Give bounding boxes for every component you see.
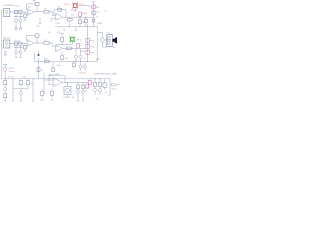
wire U1A fb left (26, 4, 28, 10)
resistor R8 bias (24, 44, 27, 51)
node N5 (79, 25, 82, 28)
wire low rail (35, 61, 98, 63)
svg-text:VB: VB (63, 29, 66, 31)
svg-text:+: + (18, 51, 19, 53)
wire U2A fb top (27, 34, 36, 36)
node Nfb (65, 16, 68, 19)
resistor R12 series (66, 47, 71, 50)
capacitor C6 (92, 19, 95, 22)
node tieB2 (19, 46, 22, 49)
svg-text:R2: R2 (28, 7, 31, 9)
resistor R6 shunt (78, 20, 81, 24)
ground G3 (4, 52, 7, 56)
wire chain top (93, 2, 95, 27)
capacitor C14 electrolytic (79, 62, 82, 71)
capacitor C25 (61, 56, 64, 60)
ground tick x40 (39, 23, 41, 25)
ground bar x5 (4, 100, 7, 102)
wire C5 drop (69, 21, 71, 27)
svg-text:J4: J4 (105, 92, 108, 94)
potentiometer RV6 (88, 81, 92, 85)
wire right vert (96, 27, 98, 62)
wire U3 out (62, 81, 88, 83)
ground G1 (15, 27, 17, 30)
svg-text:10: 10 (85, 90, 88, 92)
svg-text:VOL: VOL (91, 47, 96, 49)
wire drop x80 low (80, 48, 82, 55)
svg-text:C1 C2: C1 C2 (15, 6, 22, 8)
wire C7 lead (15, 45, 17, 50)
capacitor C13 (72, 62, 75, 70)
node N18 (99, 77, 102, 80)
wire U2B fb chain top (61, 34, 63, 38)
wire c17 (20, 89, 22, 101)
node tieB1 (15, 46, 18, 49)
power input symbol (3, 65, 7, 79)
wire diamond to box (104, 39, 107, 41)
wire U1B fb top (54, 9, 66, 11)
wire in2 stub (50, 19, 52, 22)
wire U2B out (63, 47, 86, 49)
wire C1 lead (15, 14, 17, 19)
node N11 (4, 77, 7, 80)
output flag (112, 84, 117, 86)
power rail tick (92, 1, 96, 3)
capacitor C7 (14, 42, 17, 45)
wire R6 down (79, 24, 81, 27)
capacitor C3 electrolytic (14, 19, 17, 22)
connector J2 audio in B (4, 40, 10, 48)
svg-text:100n: 100n (40, 99, 44, 101)
op-amp U1A (27, 9, 34, 16)
svg-text:100n: 100n (57, 65, 61, 67)
wire tie rail A (14, 16, 24, 18)
node chain bot (86, 60, 89, 63)
svg-text:OUT: OUT (112, 88, 117, 90)
ground tick x76 (75, 30, 77, 32)
wire U1B fb right (65, 10, 67, 18)
wire C12 down (80, 58, 82, 61)
node chain top (86, 25, 89, 28)
capacitor C2 (19, 10, 22, 13)
lamp DS2 green (70, 37, 75, 42)
node N7 (71, 47, 74, 50)
connector J3 speaker out (107, 35, 112, 47)
wire C9 down (15, 54, 17, 58)
svg-text:GUITAR IN: GUITAR IN (3, 4, 14, 7)
svg-text:LM386: LM386 (54, 74, 61, 76)
op-amp U3 power amp (53, 78, 62, 87)
capacitor C24 (103, 79, 106, 90)
wire drop x80 (79, 17, 81, 20)
svg-text:50k: 50k (96, 7, 99, 9)
wire drop x53 (52, 62, 54, 69)
wire R3 to U1B (49, 12, 56, 16)
wire Q1 bottom stub (67, 95, 69, 98)
svg-text:47k: 47k (48, 32, 51, 34)
svg-text:BOOST: BOOST (64, 97, 72, 99)
ground GB1 (15, 57, 17, 59)
svg-text:500k: 500k (83, 13, 88, 15)
wire C3 down (15, 22, 17, 27)
resistor R16 (4, 91, 7, 101)
svg-text:+: + (18, 19, 19, 21)
node N15 (66, 81, 69, 84)
ground bar x78 (77, 100, 79, 102)
wire diamond branch (97, 33, 102, 37)
wire C11 down (75, 58, 77, 61)
svg-text:4k7: 4k7 (31, 83, 35, 85)
capacitor C21 electrolytic (82, 90, 85, 93)
svg-text:9V DC: 9V DC (9, 68, 15, 70)
wire C23 down (99, 92, 101, 96)
wire volume chain (87, 27, 89, 62)
svg-text:IC1B: IC1B (56, 23, 61, 25)
svg-text:B+ 9V: B+ 9V (8, 77, 14, 79)
wire lamp to RV2 (77, 6, 92, 7)
op-amp U1B (56, 13, 63, 20)
wire tie rail B (14, 47, 24, 49)
node N6 (36, 42, 39, 45)
capacitor C12 electrolytic (79, 55, 82, 58)
capacitor C18 (41, 89, 44, 98)
resistor R1 bias (24, 12, 27, 20)
ground bar x13 (12, 100, 15, 102)
wire drop x85.8 (85, 17, 87, 19)
wire left bus (1, 9, 3, 79)
resistor R11 feedback (61, 37, 64, 41)
resistor R22 (99, 79, 102, 89)
capacitor C8 (19, 42, 22, 45)
wire drop x62 (61, 52, 63, 56)
wire stub below rail (75, 27, 77, 31)
node tieA1 (15, 15, 18, 18)
wire stub above rail (87, 24, 89, 27)
svg-text:DRIVE: DRIVE (71, 10, 78, 12)
node N1b (49, 10, 52, 13)
svg-text:VREF: VREF (97, 23, 103, 25)
transistor Q1 (64, 87, 71, 95)
wire mid rail (55, 26, 97, 28)
node N6b (49, 42, 52, 45)
potentiometer RV1 (79, 12, 83, 16)
potentiometer RV4b (86, 44, 91, 48)
capacitor C27 (84, 19, 87, 23)
wire RV6 top (89, 79, 91, 81)
resistor R21 (94, 79, 97, 89)
svg-text:AUX IN: AUX IN (3, 37, 11, 40)
potentiometer RV5 (86, 84, 90, 88)
wire C8 lead (20, 45, 22, 50)
wire R11 down (61, 41, 63, 44)
capacitor C22 electrolytic (94, 89, 97, 92)
node tieA2 (19, 15, 22, 18)
resistor R9 feedback (35, 34, 39, 37)
node lamp (61, 43, 64, 46)
wire U1B fb left (53, 10, 55, 15)
node N2 (79, 16, 82, 19)
wire C10 down (20, 54, 22, 58)
wire Q1 top (67, 82, 69, 86)
wire x33 down (32, 79, 34, 101)
node N16 (77, 81, 80, 84)
resistor R7 (92, 11, 95, 15)
diode D2 lens (101, 36, 105, 44)
capacitor C1 (14, 10, 17, 13)
op-amp U2B (56, 45, 63, 52)
wire feedback loop U3 (49, 76, 65, 85)
svg-text:2.1mm: 2.1mm (9, 71, 15, 73)
svg-text:SW1: SW1 (96, 59, 101, 61)
capacitor C9 electrolytic (15, 51, 18, 54)
capacitor C23 electrolytic (99, 89, 102, 92)
svg-text:100k: 100k (80, 51, 85, 53)
svg-text:+9: +9 (104, 11, 107, 13)
potentiometer RV3 (77, 44, 81, 48)
power tick stage1 (33, 1, 35, 3)
capacitor C15 electrolytic (83, 62, 86, 71)
node C27 (84, 16, 87, 19)
resistor R2 feedback (35, 2, 39, 5)
speaker icon (113, 37, 117, 44)
wire U3 in2 (49, 84, 53, 86)
lamp DS1 red (73, 3, 78, 8)
capacitor C20 electrolytic (77, 90, 80, 93)
resistor R20 (82, 82, 85, 90)
node N4 (68, 25, 71, 28)
resistor R17 (20, 79, 23, 87)
node N8 (83, 47, 86, 50)
svg-text:1k: 1k (41, 70, 43, 72)
wire C21 down (82, 93, 84, 101)
wire bottom rail (2, 78, 110, 80)
svg-text:1u: 1u (83, 58, 85, 60)
node N14 (64, 81, 67, 84)
wire x38 down (38, 58, 40, 79)
resistor R4 feedback (58, 8, 62, 11)
wire ref drop (39, 18, 41, 24)
wire input A (10, 11, 27, 13)
svg-text:C10: C10 (22, 77, 27, 79)
resistor R5 series (68, 18, 73, 21)
svg-text:47u 47u: 47u 47u (79, 72, 86, 74)
resistor R10 (44, 42, 49, 45)
wire U1A out (34, 11, 44, 13)
svg-text:10k: 10k (96, 11, 99, 13)
wire U3 in1 (44, 79, 53, 81)
wire C27 down (85, 23, 87, 27)
svg-text:Zo: Zo (72, 97, 75, 99)
resistor R18 (27, 79, 30, 89)
svg-text:C7 C8: C7 C8 (14, 40, 21, 42)
wire U2A out (34, 42, 44, 44)
potentiometer RV4a (86, 38, 91, 42)
capacitor C11 electrolytic (75, 55, 78, 58)
wire C2 lead (20, 14, 22, 19)
ground G2 (19, 27, 21, 30)
node N9 (75, 60, 78, 63)
wire C20 down (77, 93, 79, 101)
ground GB2 (20, 57, 22, 59)
svg-text:10u: 10u (50, 99, 53, 101)
capacitor C17 electrolytic (19, 92, 22, 95)
wire R10 to U2B (49, 43, 56, 46)
svg-text:22n: 22n (65, 58, 68, 60)
wire C25 down (61, 59, 63, 61)
wire flag tail (117, 84, 120, 86)
capacitor C10 electrolytic (19, 51, 22, 54)
wire U1B in2 (51, 18, 56, 20)
wire x110 tail (108, 85, 111, 95)
svg-text:1k: 1k (96, 17, 98, 19)
wire U1B out (63, 16, 94, 18)
wire drop x76 (75, 48, 77, 55)
connector J1 audio in A (4, 9, 10, 17)
svg-text:LM386 MINI AUDIO AMP: LM386 MINI AUDIO AMP (94, 72, 118, 75)
svg-text:8R: 8R (113, 47, 116, 49)
wire lamp down (74, 8, 76, 13)
wire input B (10, 43, 27, 45)
wire diamond bottom (103, 44, 107, 47)
ground bar x21 (20, 100, 23, 102)
ground bar x33 (32, 100, 35, 102)
svg-text:LED1: LED1 (65, 4, 71, 6)
wire U1A fb top (27, 3, 36, 5)
capacitor C4 electrolytic (19, 19, 22, 22)
svg-text:LED2: LED2 (76, 39, 82, 41)
svg-text:10k: 10k (91, 41, 94, 43)
wire x13 branch (13, 88, 28, 90)
wire x44 vertical (43, 73, 45, 94)
resistor R13 (45, 60, 50, 63)
ground G6 (38, 51, 40, 57)
capacitor C26 (52, 68, 55, 72)
wire U1A fb right (36, 6, 38, 12)
node N10 (79, 60, 82, 63)
op-amp U2A (27, 40, 34, 47)
node N12 (12, 77, 15, 80)
wire x110 down (110, 79, 112, 85)
wire bias mid (56, 44, 72, 46)
wire C4 down (20, 22, 22, 27)
resistor R15 (4, 79, 7, 88)
wire U2A fb left (26, 35, 28, 41)
resistor R3 (44, 10, 49, 13)
wire U2A fb right (36, 37, 38, 43)
capacitor C19 (51, 89, 54, 99)
wire lamp2 down (71, 41, 73, 45)
svg-text:VR: VR (37, 26, 40, 28)
node N1 (36, 10, 39, 13)
resistor R14 (37, 68, 40, 72)
node N13 (32, 77, 35, 80)
tick fb (60, 33, 64, 35)
ground bar x83 (82, 100, 84, 102)
svg-text:47n: 47n (96, 99, 99, 101)
wire x13 down (12, 79, 14, 101)
wire R5 stub (69, 17, 71, 18)
wire C22 down (94, 92, 96, 96)
capacitor C16 electrolytic (4, 88, 7, 91)
svg-text:10k: 10k (71, 14, 74, 16)
node N17 (94, 77, 97, 80)
resistor R19 (77, 82, 80, 90)
potentiometer RV2 (92, 5, 97, 9)
svg-text:10k: 10k (91, 53, 94, 55)
potentiometer RV4c (86, 50, 91, 54)
